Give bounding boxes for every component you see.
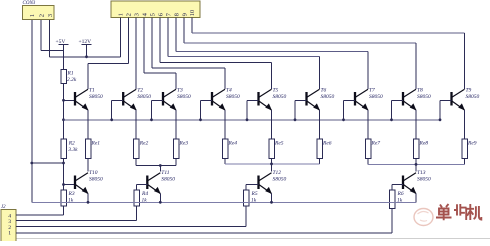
svg-text:Re2: Re2 [139, 141, 149, 147]
wire T11 emitter to rail [159, 194, 161, 203]
svg-text:T3: T3 [177, 88, 183, 94]
junction T7 base on rail [342, 118, 345, 121]
svg-text:T13: T13 [417, 170, 426, 176]
wire R2 to T10 base node [63, 159, 65, 191]
svg-text:S8050: S8050 [89, 176, 103, 182]
wire J2 pin3 to R4 [16, 206, 137, 221]
svg-text:R4: R4 [141, 190, 148, 197]
wire T2 emitter to Re2 [135, 110, 137, 139]
resistor Re2 [133, 139, 148, 159]
junction T11 emitter [159, 201, 162, 204]
transistor T2 [123, 88, 151, 111]
resistor Re7 [365, 139, 380, 159]
wire T12 base [246, 185, 259, 191]
wire T8 base [392, 100, 404, 120]
resistor R1 2.2k [61, 70, 77, 84]
svg-text:S8050: S8050 [417, 94, 431, 100]
svg-text:T4: T4 [226, 87, 232, 94]
svg-text:2.2k: 2.2k [67, 77, 77, 83]
wire header pin3 to T2 collector [135, 18, 137, 90]
svg-text:R2: R2 [68, 141, 75, 147]
wire T9 emitter to Re9 [464, 110, 466, 139]
svg-text:S8050: S8050 [273, 176, 287, 182]
junction T4 base on rail [199, 118, 202, 121]
junction T10 base node [62, 183, 65, 186]
wire header pin6 to T5 collector [160, 18, 271, 90]
wire T3 base [152, 100, 164, 120]
svg-text:Re9: Re9 [467, 141, 477, 147]
svg-text:R6: R6 [397, 191, 404, 197]
wire emitter rail [32, 201, 416, 203]
wire T5 emitter to Re5 [271, 110, 273, 139]
wire header pin7 to T6 collector [168, 18, 320, 90]
transistor T5 [259, 88, 287, 111]
transistor T11 [147, 170, 175, 194]
connector J2 [1, 205, 16, 243]
transistor T8 [403, 88, 431, 111]
wire T10 emitter to rail [87, 194, 89, 203]
resistor R6 1k [389, 190, 404, 209]
wire Re4 Re5 Re6 link to T12 collector [225, 159, 320, 172]
junction T10 emitter [87, 201, 90, 204]
wire T11 base [137, 185, 148, 191]
junction T6 base on rail [294, 118, 297, 121]
svg-text:Re5: Re5 [274, 141, 284, 147]
svg-text:T6: T6 [321, 88, 327, 94]
junction T12 collector [270, 163, 273, 166]
junction +12V stem on rail [85, 55, 88, 58]
wire T7 base [344, 100, 356, 120]
junction R2 bottom branch [62, 162, 65, 165]
svg-text:Re1: Re1 [91, 141, 101, 147]
svg-text:S8050: S8050 [466, 94, 480, 100]
wire CON3 pin2 to +5V [41, 20, 64, 51]
svg-text:S8050: S8050 [369, 94, 383, 100]
svg-text:S8050: S8050 [177, 94, 191, 100]
transistor T6 [307, 88, 335, 111]
svg-text:S8050: S8050 [226, 94, 240, 100]
junction base rail left end [62, 118, 65, 121]
svg-text:T5: T5 [273, 88, 279, 94]
wire T6 base [295, 100, 307, 120]
junction T8 base on rail [390, 118, 393, 121]
resistor R3 1k [61, 190, 75, 206]
wire header pin8 to T7 collector [176, 18, 368, 90]
wire T2 base [112, 100, 124, 120]
svg-text:S8050: S8050 [89, 94, 103, 100]
wire J2 pin2 to R5 [16, 206, 246, 226]
svg-text:S8050: S8050 [417, 176, 431, 182]
wire header pin5 to T4 collector [152, 18, 225, 90]
svg-text:T1: T1 [89, 88, 95, 94]
wire header pin4 to T3 collector [144, 18, 176, 90]
connector J1 10-pin header [111, 1, 200, 18]
wire T1 emitter to Re1 [87, 110, 89, 139]
transistor T9 [452, 88, 480, 111]
junction T2 base on rail [110, 118, 113, 121]
svg-text:1: 1 [8, 231, 11, 237]
transistor T10 [75, 170, 103, 194]
wire T9 base [440, 100, 452, 120]
svg-text:R5: R5 [251, 191, 258, 197]
wire CON3 pin1 branch to R2 bottom node [32, 162, 64, 164]
resistor Re1 [85, 139, 100, 159]
resistor R5 1k [243, 190, 258, 206]
svg-text:2: 2 [38, 14, 45, 17]
svg-text:T12: T12 [273, 170, 282, 176]
wire T6 emitter to Re6 [319, 110, 321, 139]
svg-text:T8: T8 [417, 88, 423, 94]
svg-text:1: 1 [29, 14, 36, 17]
transistor T3 [163, 88, 191, 111]
junction T11 collector [159, 164, 162, 167]
wire +5V stem to R1 [63, 51, 65, 70]
svg-text:Re8: Re8 [419, 141, 429, 147]
wire header pin10 to T9 collector [192, 18, 465, 90]
junction T3 base on rail [150, 118, 153, 121]
resistor Re9 [462, 139, 477, 159]
wire T1 base [64, 99, 76, 101]
connector CON3 [23, 1, 55, 20]
junction CON3 pin1 / T10 base branch [30, 162, 33, 165]
resistor Re8 [413, 139, 428, 159]
resistor Re5 [269, 139, 284, 159]
wire Re1 to T10 collector [87, 159, 89, 172]
wire base rail [64, 119, 441, 121]
svg-text:R3: R3 [68, 191, 75, 197]
svg-text:Re3: Re3 [179, 141, 189, 147]
svg-text:S8050: S8050 [321, 94, 335, 100]
junction T9 base on rail [439, 118, 442, 121]
wire R1 to T1 base node [63, 84, 65, 101]
transistor T13 [403, 170, 431, 194]
wire header pin9 to T8 collector [184, 18, 416, 90]
svg-text:1: 1 [118, 13, 125, 16]
svg-text:S8050: S8050 [161, 176, 175, 182]
svg-text:T7: T7 [369, 88, 375, 94]
svg-text:T10: T10 [89, 170, 98, 176]
svg-text:2: 2 [126, 13, 133, 16]
svg-text:T11: T11 [161, 170, 169, 176]
wire T7 emitter to Re7 [367, 110, 369, 139]
resistor Re3 [173, 139, 188, 159]
resistor Re6 [317, 139, 332, 159]
svg-text:S8050: S8050 [137, 94, 151, 100]
wire T13 base [392, 185, 403, 191]
wire T12 emitter to rail [271, 194, 273, 203]
transistor T7 [355, 88, 383, 111]
wire T4 base [201, 100, 213, 120]
wire header pin2 to T1 collector [88, 18, 128, 90]
resistor Re4 [222, 139, 237, 159]
junction T1 base node [62, 99, 65, 102]
power +12V [79, 39, 92, 57]
wire R3 to J2 pin4 [16, 206, 64, 215]
wire J2 pin1 to R6 [16, 209, 392, 233]
svg-text:T9: T9 [466, 88, 472, 94]
svg-text:10: 10 [189, 9, 196, 16]
wire T4 emitter to Re4 [224, 110, 226, 139]
transistor T4 [212, 87, 240, 111]
resistor R4 1k [134, 190, 149, 206]
svg-text:Re6: Re6 [322, 141, 332, 147]
wire T3 emitter to Re3 [175, 110, 177, 139]
transistor T1 [75, 88, 103, 111]
wire CON3 pin1 down to emitter rail [31, 20, 33, 202]
wire Re2 Re3 link to T11 collector [136, 159, 176, 172]
wire T5 base [247, 100, 259, 120]
wire T8 emitter to Re8 [415, 110, 417, 139]
wire Re7 Re8 Re9 link to T13 collector [368, 159, 465, 172]
svg-text:Re4: Re4 [228, 140, 238, 147]
wire CON3 pin3 to +12V rail and header pin1 [50, 18, 121, 57]
wire T10 base [64, 184, 76, 186]
transistor T12 [259, 170, 287, 194]
junction T5 base on rail [246, 118, 249, 121]
svg-text:S8050: S8050 [273, 94, 287, 100]
wire T1 base node down to R2 [63, 100, 65, 139]
svg-text:Re7: Re7 [371, 141, 381, 147]
svg-text:T2: T2 [137, 88, 143, 94]
resistor R2 2.2k [61, 139, 78, 159]
junction T13 collector [415, 163, 418, 166]
svg-text:R1: R1 [67, 71, 74, 77]
wire T13 emitter to rail [415, 194, 417, 203]
svg-text:3.3k: 3.3k [67, 147, 78, 153]
junction T12 emitter [270, 201, 273, 204]
power +5V [56, 39, 69, 51]
